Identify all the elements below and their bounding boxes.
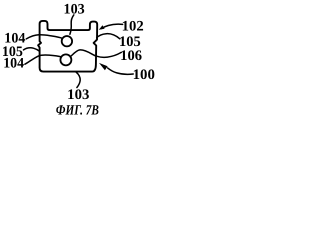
svg-text:103: 103 <box>64 1 85 17</box>
svg-text:102: 102 <box>122 19 144 35</box>
leader of label 102 <box>101 24 122 28</box>
leader of left label 105 <box>24 48 40 51</box>
wavy layer line B right segment continuing into leader of label 106 <box>70 50 121 57</box>
wavy layer line A with leader from left label 104 (top) <box>26 35 62 39</box>
arrowhead of leader 102 <box>99 25 105 30</box>
leader of label 100 <box>108 68 134 74</box>
upper circle <box>62 36 72 46</box>
svg-text:103: 103 <box>67 87 89 103</box>
leader of bottom label 103 <box>76 72 80 88</box>
lower circle <box>60 54 71 65</box>
arrowhead of leader 100 <box>99 63 108 70</box>
svg-text:106: 106 <box>120 48 142 64</box>
svg-text:ФИГ. 7В: ФИГ. 7В <box>56 103 99 119</box>
svg-text:104: 104 <box>3 56 24 72</box>
svg-text:100: 100 <box>133 67 155 83</box>
leader of right label 105 <box>97 34 120 39</box>
body outline <box>38 21 97 72</box>
leader of top label 103 <box>70 15 74 34</box>
wavy layer line B with leader from left label 104 (bottom) <box>25 55 61 64</box>
